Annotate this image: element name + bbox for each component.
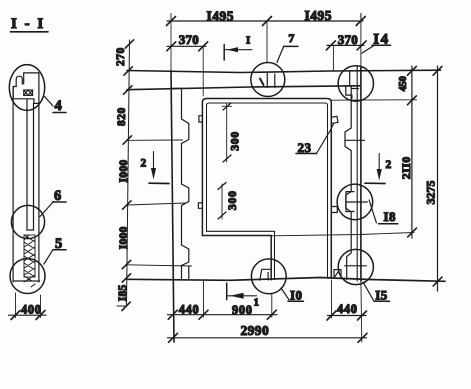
svg-text:2: 2 — [141, 158, 147, 170]
svg-text:I8: I8 — [384, 209, 397, 224]
callout circle 4 — [9, 65, 44, 111]
svg-text:370: 370 — [179, 32, 199, 47]
svg-text:4: 4 — [55, 98, 62, 114]
callout circle 15 — [338, 249, 373, 284]
circle 10 shoe detail — [260, 269, 271, 280]
step bottom extension line to right dims — [202, 235, 271, 237]
svg-text:2II0: 2II0 — [399, 156, 413, 179]
anchor core hatch (detail 5) — [24, 235, 35, 287]
leader 7 — [277, 47, 284, 63]
right dim chain 450/2110 — [331, 66, 416, 238]
callout circle 18 — [337, 184, 373, 220]
leader 15 — [363, 282, 374, 300]
callout circle 14 — [338, 66, 373, 101]
interior dim 300 upper — [222, 103, 242, 162]
callout circle 5 — [10, 259, 45, 294]
circle 7 joint detail — [260, 73, 275, 88]
leader 10 — [281, 288, 289, 300]
embed plate hatch in circle 4 — [24, 90, 33, 95]
leader 23 — [317, 124, 334, 154]
label 15 — [374, 287, 390, 302]
label 5 — [53, 236, 66, 252]
top dimension line 1495+1495 — [167, 8, 366, 26]
svg-text:2: 2 — [386, 159, 392, 171]
bottom dim 2990 — [168, 323, 368, 342]
panel outer contour — [202, 99, 331, 279]
left column edge profile with keys — [171, 88, 189, 279]
panel right tab mid — [331, 207, 337, 213]
extension line to circle 7 — [266, 21, 268, 63]
bottom dim line 440/900 — [168, 281, 278, 319]
right column edge profile with keys — [345, 87, 351, 280]
svg-text:I000: I000 — [118, 160, 130, 183]
section mark 2 left — [141, 152, 170, 184]
svg-text:3275: 3275 — [424, 181, 438, 205]
leader 14 — [362, 46, 374, 54]
panel corner tab at circle 15 — [334, 270, 341, 277]
svg-text:370: 370 — [338, 32, 358, 47]
label 10 — [288, 288, 304, 303]
bottom dim 440 right — [327, 280, 367, 320]
circle 14 details — [344, 72, 360, 99]
bottom floor band — [127, 278, 445, 282]
key crossbars — [345, 139, 365, 141]
label 18 — [379, 209, 398, 224]
svg-text:I000: I000 — [118, 226, 130, 249]
callout circle 6 — [11, 205, 44, 238]
label 23 — [296, 140, 317, 155]
svg-text:820: 820 — [116, 107, 128, 126]
svg-text:I495: I495 — [207, 8, 235, 23]
svg-text:300: 300 — [228, 131, 242, 151]
svg-text:900: 900 — [232, 303, 253, 317]
svg-text:1: 1 — [254, 297, 260, 309]
dim 370 left — [167, 32, 208, 96]
section title I-I — [11, 16, 49, 32]
svg-text:300: 300 — [225, 190, 239, 210]
section mark 2 right — [365, 154, 392, 184]
leader 5 — [44, 250, 53, 265]
svg-text:450: 450 — [398, 76, 409, 91]
top wall band — [127, 70, 441, 72]
right column main lines — [360, 14, 362, 46]
callout circle 10 — [251, 259, 286, 294]
section mark I top — [224, 35, 252, 61]
left dimension chain line — [117, 40, 192, 311]
label 14 — [372, 32, 391, 48]
label 6 — [53, 188, 67, 204]
panel right tab 23 — [331, 116, 338, 123]
svg-text:I495: I495 — [305, 8, 333, 23]
svg-text:I - I: I - I — [11, 16, 45, 32]
leader 18 — [369, 200, 376, 223]
section column outline — [13, 73, 39, 282]
svg-text:270: 270 — [115, 47, 127, 66]
svg-text:7: 7 — [288, 31, 294, 45]
svg-text:400: 400 — [21, 303, 42, 317]
svg-text:440: 440 — [337, 302, 358, 316]
leader 4 — [45, 97, 54, 107]
dim 370 right — [326, 32, 366, 70]
label 4 — [53, 98, 66, 114]
section column inner channel lines — [27, 100, 34, 231]
svg-text:I: I — [246, 35, 250, 47]
svg-text:440: 440 — [179, 302, 200, 316]
svg-text:I0: I0 — [290, 288, 303, 303]
label 7 — [284, 31, 298, 46]
interior dim 300 lower — [218, 183, 239, 220]
section mark 1 bottom — [227, 283, 259, 309]
circle 18 bracket detail — [346, 192, 354, 212]
dimension 400 (section) — [9, 293, 47, 320]
right dim 3275 — [424, 66, 443, 291]
panel left tab upper — [199, 116, 203, 122]
callout circle 7 — [251, 63, 285, 97]
panel inner contour — [207, 103, 328, 278]
detail block in circle 4 — [13, 73, 39, 99]
panel left tab lower — [198, 203, 202, 208]
left column main line — [170, 21, 172, 71]
svg-text:2990: 2990 — [241, 323, 270, 338]
svg-text:I85: I85 — [117, 284, 129, 301]
svg-text:I5: I5 — [375, 287, 388, 302]
leader 6 — [40, 202, 54, 217]
